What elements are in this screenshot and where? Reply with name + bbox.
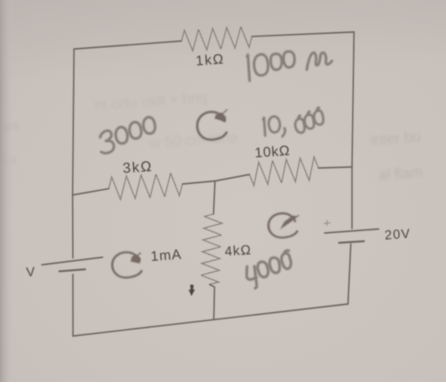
svg-text:10kΩ: 10kΩ	[254, 142, 290, 160]
wire below 20V battery	[348, 244, 351, 304]
wire center branch top	[214, 181, 216, 214]
wire left lower to source	[72, 195, 74, 258]
handwritten 10,000	[263, 115, 286, 138]
plus mark above 20V battery	[324, 221, 330, 226]
wire below source V	[72, 275, 74, 337]
wire bottom	[73, 304, 348, 336]
wire middle-left	[73, 189, 109, 195]
wire right mid to 20V battery	[351, 167, 353, 229]
mesh current arrow 1 (1mA)	[112, 252, 141, 277]
svg-text:al flam: al flam	[378, 164, 423, 184]
handwritten 3000	[96, 116, 158, 154]
resistor R1 1kOhm	[182, 27, 253, 51]
source V short plate	[59, 269, 85, 271]
resistor R4 4kOhm	[201, 214, 222, 285]
svg-text:20V: 20V	[384, 226, 411, 243]
wire left upper	[73, 49, 74, 195]
resistor R3 10kOhm	[249, 157, 318, 186]
wire center branch bottom	[210, 285, 215, 320]
battery 20V long plate	[325, 229, 379, 233]
svg-text:3kΩ: 3kΩ	[122, 159, 153, 177]
svg-text:4kΩ: 4kΩ	[224, 242, 252, 259]
svg-text:1kΩ: 1kΩ	[195, 51, 225, 69]
mesh current arrow 2 (top)	[197, 112, 226, 140]
svg-text:1mA: 1mA	[150, 246, 182, 264]
mesh 1 arrowhead	[131, 253, 141, 264]
svg-text:inter bu: inter bu	[370, 129, 421, 149]
battery 20V short plate	[339, 241, 364, 243]
svg-text:b n: b n	[0, 153, 17, 168]
resistor R2 3kOhm	[109, 173, 183, 199]
wire top-left segment	[74, 41, 182, 49]
wire middle-right	[319, 167, 353, 168]
handwritten 1000 Ohm	[247, 46, 333, 81]
mesh 2 arrowhead	[215, 110, 228, 123]
wire right upper	[352, 32, 354, 167]
handwritten 4000	[244, 250, 295, 289]
mesh current arrow 3 (right)	[268, 213, 297, 237]
current arrow down at R4	[189, 285, 195, 297]
wire top-right segment	[252, 32, 354, 37]
wire middle-center	[182, 175, 249, 185]
source V long plate	[42, 257, 103, 264]
svg-text:ara: ara	[1, 118, 20, 133]
mesh 3 arrowhead	[280, 216, 299, 230]
svg-text:V: V	[26, 264, 36, 280]
